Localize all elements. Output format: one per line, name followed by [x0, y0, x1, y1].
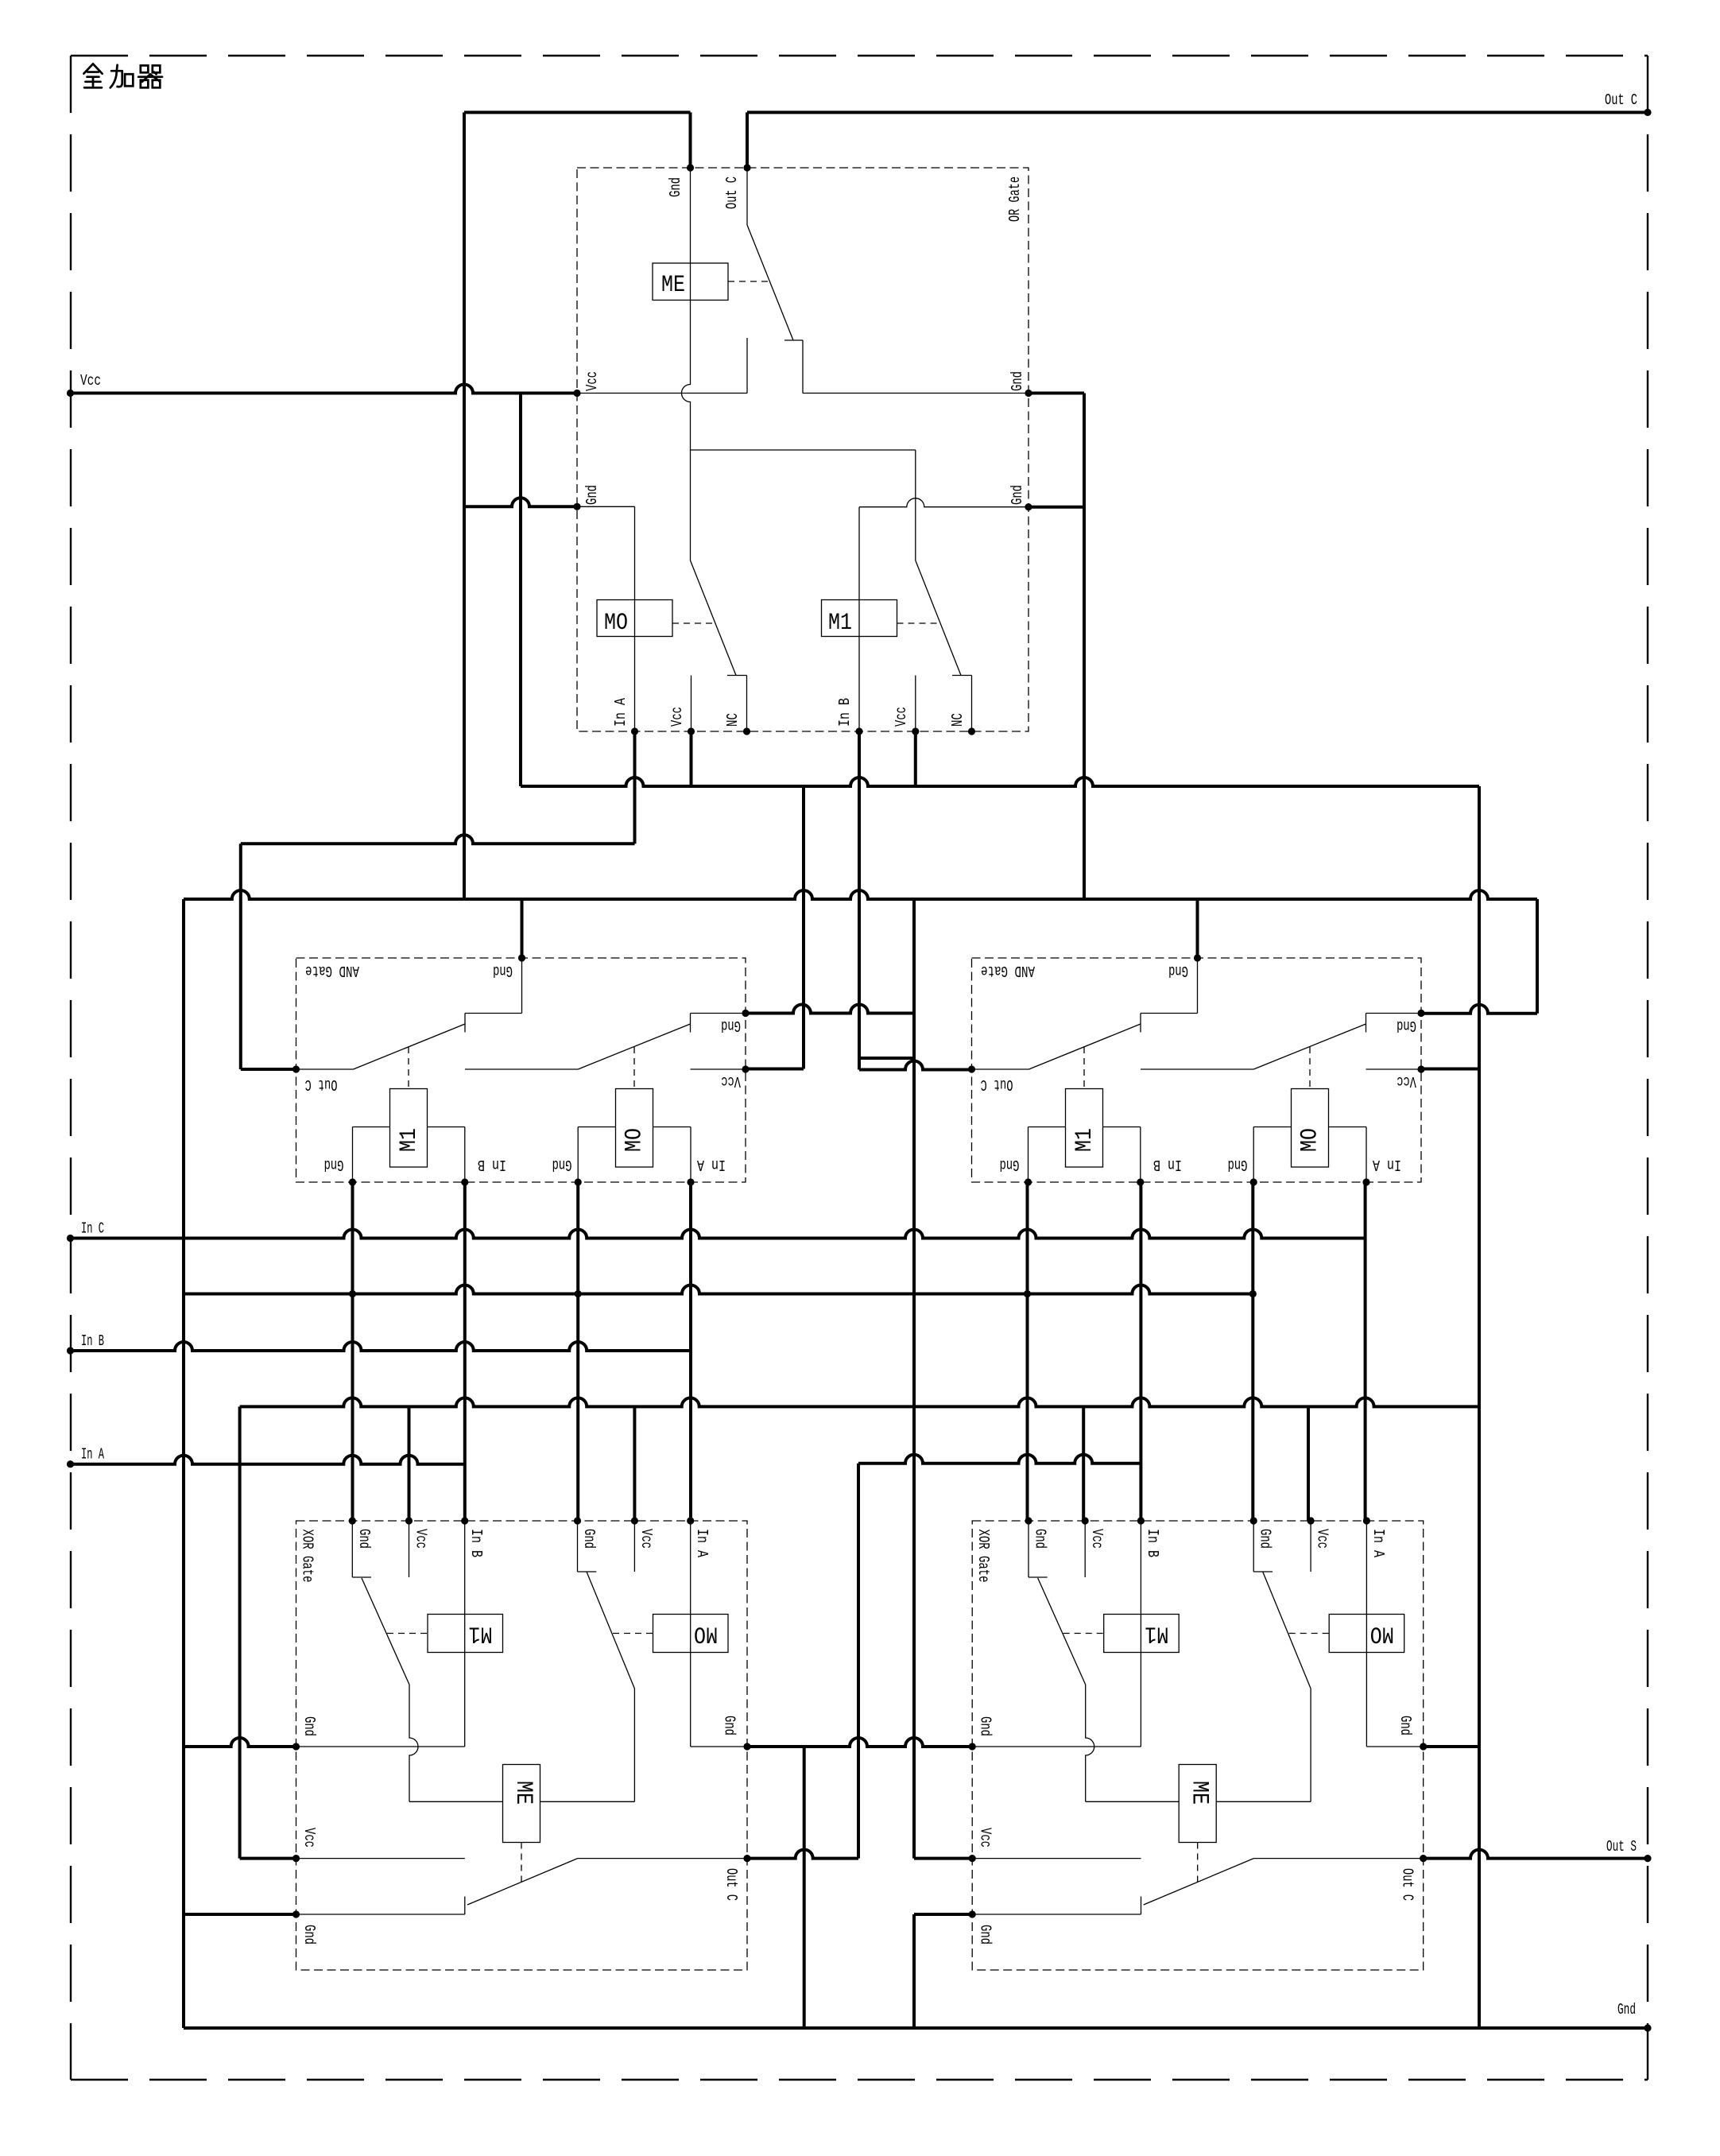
- wire right XOR Gnd lower pin to rail: [914, 1913, 972, 1916]
- wire Vcc row to right XOR top Vcc pin 2: [1307, 1406, 1310, 1521]
- wire left A Gnd column: [182, 899, 185, 2028]
- M1 switch arm: [354, 1024, 466, 1069]
- svg-text:In A: In A: [693, 1529, 711, 1557]
- wire Gnd row between XOR gates: [747, 1738, 972, 1747]
- svg-text:In A: In A: [1369, 1529, 1387, 1557]
- M1 switch arm: [1038, 1578, 1086, 1685]
- wire Vcc rail drop: [519, 394, 522, 787]
- pin Gnd (left AND right): [742, 1010, 749, 1017]
- svg-text:In B: In B: [1153, 1156, 1182, 1173]
- wire Gnd internal row: [296, 1746, 465, 1747]
- relay coil M1 (left AND): [390, 1089, 428, 1168]
- pin In A (right XOR top): [1363, 1517, 1370, 1524]
- M0 switch arm: [1253, 1024, 1366, 1069]
- terminal Gnd: [1644, 2024, 1651, 2031]
- AND gate subcircuit box (right): [972, 958, 1422, 1182]
- pin Gnd (left XOR top 1): [349, 1517, 356, 1524]
- pin In A (left XOR top): [687, 1517, 694, 1524]
- M1 switch arm: [1029, 1024, 1141, 1069]
- svg-text:Gnd: Gnd: [667, 177, 684, 197]
- wire Gnd column left gates 2: [576, 1182, 579, 1521]
- M1 switch arm: [362, 1578, 409, 1685]
- svg-text:Vcc: Vcc: [1397, 1072, 1416, 1090]
- wire Out C: OR gate to Out C terminal: [746, 112, 749, 168]
- pin In A (right AND bottom): [1362, 1178, 1369, 1185]
- pin NC (OR bottom 1): [743, 727, 750, 735]
- wire Out S: right XOR Out C to terminal: [1422, 1850, 1648, 1859]
- pin Vcc (left AND right): [742, 1065, 749, 1072]
- terminal In C: [67, 1235, 74, 1242]
- pin Vcc (left XOR top 1): [405, 1517, 413, 1524]
- svg-text:Gnd: Gnd: [1617, 2001, 1636, 2018]
- relay coil M1 (right AND): [1066, 1089, 1103, 1168]
- wire right XOR Gnd right pin to Gnd: [1422, 1745, 1479, 1748]
- wire jog to 1150 column: [859, 1057, 914, 1060]
- wire In A bus: [71, 1456, 465, 1464]
- ME actuator link: [1197, 1843, 1199, 1883]
- pin In B (right AND bottom): [1137, 1178, 1144, 1185]
- M1 actuator link: [1083, 1047, 1085, 1089]
- svg-text:AND Gate: AND Gate: [305, 962, 359, 979]
- svg-text:Gnd: Gnd: [583, 485, 601, 505]
- wire OR right pins to Gnd bus: [1027, 392, 1084, 395]
- svg-text:In B: In B: [478, 1156, 506, 1173]
- svg-text:M1: M1: [1145, 1620, 1168, 1647]
- svg-text:Gnd: Gnd: [977, 1925, 994, 1945]
- svg-text:ME: ME: [1186, 1781, 1213, 1805]
- svg-text:XOR Gate: XOR Gate: [299, 1530, 316, 1583]
- svg-text:In B: In B: [81, 1332, 104, 1350]
- pin Gnd (right AND top): [1194, 954, 1201, 961]
- pin Gnd (OR left): [573, 503, 580, 510]
- pin Out C (OR top): [743, 164, 750, 171]
- svg-text:Vcc: Vcc: [583, 371, 601, 391]
- svg-text:Out C: Out C: [722, 1868, 740, 1901]
- wire In A column left gates: [689, 1182, 692, 1521]
- wire OR bottom Vcc pin 1 to rail: [690, 731, 693, 786]
- OR gate subcircuit box: [577, 168, 1029, 731]
- pin In A (left AND bottom): [687, 1178, 694, 1185]
- svg-text:In B: In B: [836, 698, 854, 727]
- pin Vcc (right XOR left): [969, 1855, 976, 1862]
- terminal Out S: [1644, 1855, 1651, 1862]
- relay coil ME (left XOR): [503, 1765, 540, 1843]
- contact M1 switch (right AND): [1197, 958, 1199, 1014]
- svg-text:In A: In A: [612, 698, 630, 727]
- wire rail corner down right side: [1478, 786, 1481, 2028]
- wire right AND Vcc pin to rail: [1422, 1068, 1479, 1071]
- pin Gnd (right XOR right): [1420, 1743, 1427, 1750]
- svg-text:Vcc: Vcc: [413, 1529, 430, 1549]
- svg-text:M1: M1: [469, 1620, 493, 1647]
- terminal Vcc: [67, 390, 74, 397]
- svg-text:Gnd: Gnd: [324, 1156, 344, 1173]
- M0 switch fixed contact: [1310, 1521, 1311, 1572]
- pin Vcc (OR bottom 1): [688, 727, 695, 735]
- wire arm feed branch to M1 contact: [691, 449, 916, 451]
- pin Gnd (left XOR right): [743, 1743, 750, 1750]
- terminal Out C: [1644, 109, 1651, 116]
- svg-text:Out C: Out C: [305, 1076, 338, 1093]
- svg-text:Vcc: Vcc: [977, 1828, 994, 1848]
- pin Vcc (OR bottom 2): [912, 727, 919, 735]
- XOR gate subcircuit box (left): [296, 1521, 748, 1970]
- relay coil M0 (right XOR): [1366, 1521, 1367, 1747]
- pin In A (OR bottom): [631, 727, 638, 735]
- M1 actuator link: [1063, 1633, 1104, 1634]
- wire Vcc terminal to OR left pin: [71, 385, 579, 394]
- ME switch arm: [1144, 1859, 1254, 1905]
- wire Vcc row to left XOR top Vcc pin 2: [633, 1406, 636, 1521]
- svg-text:NC: NC: [949, 713, 967, 727]
- wire Gnd bus to right AND top pin: [1196, 899, 1199, 958]
- wire Gnd internal row: [972, 1746, 1141, 1747]
- relay coil M0 (right AND): [1292, 1089, 1329, 1168]
- ME actuator link: [521, 1843, 522, 1883]
- wire OR bottom Vcc pin 2 to rail: [914, 731, 917, 786]
- svg-text:In A: In A: [1373, 1156, 1401, 1173]
- pin Gnd (OR top): [687, 164, 694, 171]
- wire Vcc rail horizontal: [521, 777, 1479, 786]
- svg-text:Vcc: Vcc: [1314, 1529, 1331, 1549]
- M0 actuator link: [633, 1047, 635, 1089]
- svg-text:MO: MO: [1370, 1620, 1394, 1647]
- pin In B (right XOR top): [1137, 1517, 1145, 1524]
- wire Gnd column left gates 1: [351, 1182, 354, 1521]
- svg-text:ME: ME: [661, 272, 685, 299]
- pin Gnd (right XOR left upper): [969, 1743, 976, 1750]
- M0 switch arm: [578, 1024, 690, 1069]
- M1 switch fixed contact: [915, 676, 916, 732]
- wire rail to left AND Vcc pin: [802, 786, 805, 1069]
- wire between contacts: [1141, 1068, 1253, 1070]
- svg-text:In A: In A: [697, 1156, 726, 1173]
- pin Gnd (right XOR top 2): [1250, 1517, 1257, 1524]
- wire Vcc row for XOR gates: [240, 1398, 1479, 1406]
- svg-text:Gnd: Gnd: [300, 1925, 318, 1945]
- svg-text:In C: In C: [81, 1220, 104, 1238]
- svg-text:Out C: Out C: [723, 176, 741, 209]
- pin Gnd (right AND right): [1417, 1010, 1424, 1017]
- svg-text:Gnd: Gnd: [552, 1156, 572, 1173]
- terminal In B: [67, 1347, 74, 1354]
- pin NC (OR bottom 2): [968, 727, 975, 735]
- relay coil M0: [634, 506, 636, 731]
- wire In B bus: [71, 1342, 691, 1351]
- title 全加器: [83, 64, 162, 87]
- pin Out C (right XOR right): [1420, 1855, 1427, 1862]
- pin Out C (right AND left): [968, 1065, 975, 1072]
- wire between contacts: [465, 1068, 578, 1070]
- contact M1 switch (left AND): [521, 958, 523, 1014]
- wire Gnd from OR top pin: [689, 112, 692, 168]
- svg-text:Out C: Out C: [1399, 1868, 1416, 1901]
- svg-text:M1: M1: [396, 1128, 423, 1152]
- wire Gnd bus to left AND top pin: [521, 899, 524, 958]
- M0 actuator link: [672, 622, 714, 624]
- contact M1 switch (left XOR): [351, 1521, 353, 1577]
- svg-text:Vcc: Vcc: [668, 707, 686, 727]
- wire Vcc row to left XOR left Vcc pin: [238, 1406, 242, 1858]
- svg-text:Vcc: Vcc: [80, 372, 101, 390]
- outer dashed border frame: [71, 55, 1648, 56]
- ME switch arm: [467, 1859, 578, 1905]
- wire right AND Out C to In B column: [859, 1061, 972, 1070]
- pin Gnd (right AND bottom 2): [1250, 1178, 1257, 1185]
- svg-text:Vcc: Vcc: [300, 1828, 318, 1848]
- wire left AND Out C loop: [241, 835, 635, 843]
- M0 switch arm: [691, 560, 737, 676]
- wire left XOR Out C to column: [747, 1850, 858, 1859]
- wire Vcc row to right XOR top Vcc pin 1: [1082, 1406, 1085, 1521]
- svg-text:Gnd: Gnd: [1009, 485, 1026, 505]
- wire Vcc row to left XOR top Vcc pin 1: [408, 1406, 411, 1521]
- ME switch arm: [747, 225, 793, 340]
- junction dots on Gnd bus row 3: [349, 1290, 356, 1297]
- pin Gnd (left AND bottom 2): [575, 1178, 582, 1185]
- pin In B (left AND bottom): [461, 1178, 468, 1185]
- wire ME coil line (Gnd pin down to arm feed): [682, 168, 691, 560]
- svg-text:MO: MO: [1297, 1128, 1324, 1152]
- pin Gnd (OR right upper): [1025, 390, 1032, 397]
- M1 actuator link: [387, 1633, 428, 1634]
- pin Vcc (right XOR top 2): [1307, 1517, 1315, 1524]
- relay coil ME: [653, 263, 728, 301]
- wire Gnd bus row 3: [184, 1285, 1253, 1294]
- wire XOR1 output row: [858, 1455, 1141, 1464]
- relay coil M0 (left XOR): [690, 1521, 691, 1747]
- svg-text:NC: NC: [724, 713, 742, 727]
- svg-text:Gnd: Gnd: [1397, 1017, 1416, 1034]
- M0 switch arm: [1263, 1572, 1311, 1689]
- pin Vcc (left XOR top 2): [631, 1517, 638, 1524]
- svg-text:MO: MO: [622, 1128, 649, 1152]
- pin Vcc (right XOR top 1): [1082, 1517, 1089, 1524]
- pin Gnd (right XOR left lower): [969, 1910, 976, 1918]
- svg-text:Vcc: Vcc: [1088, 1529, 1106, 1549]
- M1 actuator link: [897, 622, 939, 624]
- svg-text:Out C: Out C: [1605, 91, 1637, 109]
- ME switch fixed contact (Vcc side): [296, 1858, 465, 1859]
- svg-text:Gnd: Gnd: [300, 1716, 318, 1736]
- M0 switch arm: [587, 1572, 634, 1689]
- svg-text:M1: M1: [1071, 1128, 1098, 1152]
- pin Out C (left AND left): [292, 1065, 300, 1072]
- M1 switch arm: [916, 560, 961, 676]
- AND gate subcircuit box (left): [296, 958, 746, 1182]
- wire left XOR Out C up: [857, 1464, 860, 1859]
- M1 actuator link: [408, 1047, 409, 1089]
- terminal In A: [67, 1460, 74, 1468]
- M1 switch fixed contact: [1084, 1521, 1086, 1577]
- pin Vcc (left XOR left): [292, 1855, 300, 1862]
- M1 switch fixed contact: [409, 1521, 410, 1577]
- ME switch fixed contact (Vcc side): [972, 1858, 1141, 1859]
- pin Gnd (left XOR left upper): [292, 1743, 300, 1750]
- svg-text:Vcc: Vcc: [637, 1529, 655, 1549]
- svg-text:AND Gate: AND Gate: [981, 962, 1035, 979]
- XOR gate subcircuit box (right): [972, 1521, 1424, 1970]
- svg-text:Out S: Out S: [1606, 1838, 1637, 1855]
- M0 actuator link: [613, 1633, 653, 1634]
- svg-text:In B: In B: [467, 1529, 485, 1557]
- pin In B (OR bottom): [855, 727, 862, 735]
- svg-text:ME: ME: [509, 1781, 537, 1805]
- svg-text:Gnd: Gnd: [355, 1529, 373, 1549]
- relay coil M1 (left XOR): [464, 1521, 466, 1747]
- wire Vcc internal line: [577, 393, 747, 394]
- svg-text:Gnd: Gnd: [721, 1017, 741, 1034]
- svg-text:Gnd: Gnd: [1257, 1529, 1274, 1549]
- svg-text:M1: M1: [828, 610, 852, 637]
- svg-text:Gnd: Gnd: [1032, 1529, 1049, 1549]
- svg-text:Vcc: Vcc: [721, 1072, 741, 1090]
- svg-text:OR Gate: OR Gate: [1006, 176, 1024, 222]
- pin Gnd (OR right lower): [1025, 503, 1032, 510]
- pin Gnd (right AND bottom 1): [1025, 1178, 1032, 1185]
- wire Gnd bus row 2: [184, 890, 1537, 899]
- pin Gnd (left XOR left lower): [292, 1910, 300, 1918]
- wire In C bus: [71, 1230, 1366, 1239]
- svg-text:In B: In B: [1144, 1529, 1161, 1557]
- svg-text:Gnd: Gnd: [721, 1716, 738, 1735]
- svg-text:Vcc: Vcc: [893, 707, 910, 727]
- wire Gnd bus right corner to right AND Gnd pin: [1536, 899, 1539, 1014]
- svg-text:Gnd: Gnd: [1228, 1156, 1248, 1173]
- svg-text:Gnd: Gnd: [1168, 962, 1188, 979]
- svg-text:MO: MO: [604, 610, 628, 637]
- svg-text:In A: In A: [81, 1446, 104, 1464]
- pin Vcc (OR left): [573, 390, 580, 397]
- pin Out C (left XOR right): [743, 1855, 750, 1862]
- M0 switch fixed contact: [633, 1521, 635, 1572]
- wire Gnd to OR left lower pin: [464, 498, 578, 506]
- pin Gnd (right XOR top 1): [1025, 1517, 1032, 1524]
- relay coil ME (right XOR): [1179, 1765, 1216, 1843]
- svg-text:Gnd: Gnd: [1000, 1156, 1020, 1173]
- svg-text:Gnd: Gnd: [977, 1716, 994, 1736]
- M0 switch fixed contact: [691, 676, 692, 732]
- wire Gnd stub to rail: [803, 1747, 806, 2028]
- svg-text:Gnd: Gnd: [580, 1529, 598, 1549]
- pin In B (left XOR top): [461, 1517, 468, 1524]
- wire OR In A pin down to AND OutC loop corner: [633, 731, 637, 843]
- contact M1 switch (right XOR): [1028, 1521, 1029, 1577]
- ME actuator link: [728, 281, 769, 282]
- contact M0 switch (right XOR): [1253, 1521, 1254, 1572]
- wire left AND right Gnd pin to 1150 column: [746, 1005, 914, 1014]
- contact M0 switch (left XOR): [577, 1521, 579, 1572]
- svg-text:XOR Gate: XOR Gate: [974, 1530, 992, 1583]
- pin Gnd (left AND top): [518, 954, 525, 961]
- svg-text:MO: MO: [694, 1620, 718, 1647]
- svg-text:Gnd: Gnd: [1009, 371, 1026, 391]
- pin Gnd (left XOR top 2): [574, 1517, 581, 1524]
- relay coil M1: [858, 507, 860, 731]
- contact ME switch: [746, 168, 748, 225]
- M0 actuator link: [1289, 1633, 1330, 1634]
- svg-text:Out C: Out C: [981, 1076, 1013, 1093]
- svg-text:Gnd: Gnd: [1397, 1716, 1414, 1735]
- relay coil M1 (right XOR): [1140, 1521, 1141, 1747]
- wire Gnd bottom rail: [184, 2026, 1648, 2030]
- relay coil M0 (left AND): [616, 1089, 653, 1168]
- wire In B column left gates: [463, 1182, 467, 1521]
- svg-text:Gnd: Gnd: [493, 962, 513, 979]
- M0 actuator link: [1309, 1047, 1311, 1089]
- wire OR In B down: [858, 731, 861, 1070]
- wire columns right gates: [1026, 1182, 1029, 1521]
- pin Vcc (right AND right): [1417, 1065, 1424, 1072]
- wire Gnd to left XOR left pins: [184, 1738, 296, 1747]
- pin Gnd (left AND bottom 1): [349, 1178, 356, 1185]
- ME switch fixed contact: [746, 338, 748, 394]
